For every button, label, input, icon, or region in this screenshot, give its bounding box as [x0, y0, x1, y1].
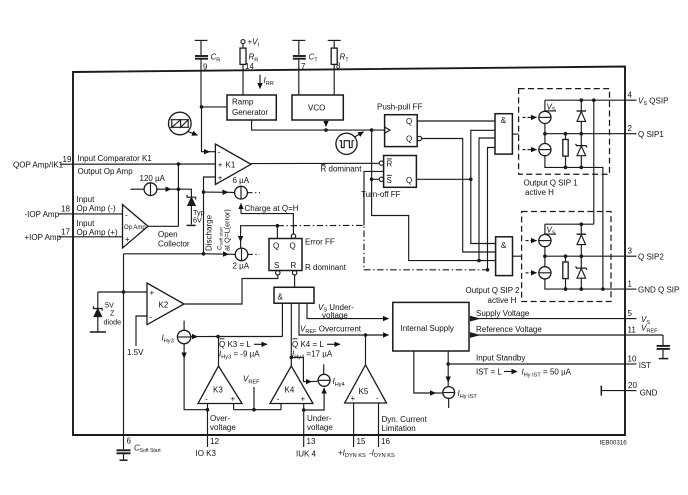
label IST = L -> IHyIST = 50 uA — [476, 368, 572, 379]
svg-text:K2: K2 — [159, 301, 169, 310]
svg-text:S: S — [274, 261, 279, 270]
AND gate (fault OR) — [274, 287, 314, 303]
svg-text:K1: K1 — [226, 160, 236, 169]
svg-text:-: - — [125, 210, 128, 219]
node pin12 junction — [206, 408, 210, 412]
svg-text:11: 11 — [628, 326, 637, 335]
zener diode typ 6V — [178, 189, 195, 225]
svg-text:Q: Q — [406, 117, 412, 126]
op-amp U1 — [123, 205, 149, 249]
wire pin9 to ramp/K1 node — [200, 70, 202, 107]
wire bottom rail stage 1 — [545, 156, 603, 289]
wire IHy4 down to pin 13 node — [304, 388, 324, 410]
ground bar pin 20 — [601, 386, 625, 396]
output stage 1 dashed box — [519, 89, 610, 175]
wire pin 6 soft start — [123, 254, 125, 449]
current arrow IRR — [259, 75, 261, 89]
block VCO — [292, 95, 343, 120]
svg-text:Op Amp: Op Amp — [124, 225, 146, 231]
wire mid rail stage1 to pin 2 — [545, 133, 625, 135]
svg-text:18: 18 — [61, 205, 70, 214]
AND gate output 2 — [496, 237, 513, 276]
node K4 output junction — [290, 356, 294, 360]
svg-text:Input: Input — [77, 219, 96, 228]
control arrow lower source stage 2 — [526, 272, 537, 274]
wire VREF rail — [234, 409, 281, 411]
wire K2 minus input 1.5V — [136, 316, 147, 346]
wire error line to turn-off FF input — [364, 171, 384, 225]
svg-text:13: 13 — [307, 437, 316, 446]
wire K1 output to turn-off FF R — [251, 162, 379, 164]
capacitor on VREF — [657, 335, 670, 359]
svg-text:Supply Voltage: Supply Voltage — [476, 309, 530, 318]
svg-text:R dominant: R dominant — [321, 164, 363, 173]
VS supply tick stage 1 — [545, 100, 556, 111]
svg-text:-: - — [277, 395, 280, 404]
current source 2uA (discharge) — [235, 248, 259, 261]
svg-text:Collector: Collector — [158, 240, 190, 249]
label QK3 = L — [219, 339, 267, 349]
svg-text:R: R — [291, 261, 297, 270]
node discharge junction — [202, 190, 206, 194]
svg-text:-: - — [150, 313, 153, 322]
svg-text:Charge at Q=H: Charge at Q=H — [245, 204, 299, 213]
current source IHyIST — [443, 387, 455, 408]
control arrow upper source stage 1 — [523, 116, 537, 118]
svg-text:+: + — [150, 288, 155, 297]
VS supply tick stage 2 — [545, 224, 556, 234]
svg-text:Q: Q — [406, 176, 412, 185]
node K5 output junction — [364, 333, 368, 337]
svg-text:+: + — [218, 160, 223, 169]
svg-text:Generator: Generator — [232, 108, 268, 117]
svg-text:voltage: voltage — [307, 423, 333, 432]
wire VCO output arrow — [325, 120, 327, 127]
wire reference voltage to pin 11 — [478, 334, 625, 336]
svg-text:+: + — [231, 395, 236, 404]
wire mid rail stage2 to pin 3 — [545, 255, 625, 257]
node K3 output junction — [216, 335, 220, 339]
wire turn-off Q to gate 1 — [471, 130, 495, 179]
wire turn-off Q to gate 2 — [471, 179, 496, 243]
block Ramp Generator — [227, 95, 276, 120]
resistor RT (pin 8 external) — [328, 40, 341, 69]
wire charge path to error FF Qbar — [241, 204, 293, 234]
svg-text:IO K3: IO K3 — [196, 449, 217, 458]
svg-text:voltage: voltage — [210, 423, 236, 432]
wire K3 plus to VREF rail — [233, 404, 235, 410]
wire mid node stage 1 — [544, 124, 546, 144]
wire error FF Q to 2uA top — [241, 226, 278, 248]
wire internal supply to IHyIST left — [414, 351, 436, 393]
wire K3 minus to pin 12 — [207, 404, 209, 448]
wire VS rail stage 2 — [545, 223, 594, 225]
pin 19 stub — [60, 163, 73, 165]
svg-text:active H: active H — [525, 188, 554, 197]
svg-text:Output Q SIP 1: Output Q SIP 1 — [524, 179, 579, 188]
wire fault input 2 (from K4 output) — [290, 303, 292, 366]
svg-text:R: R — [387, 159, 393, 168]
svg-text:Error FF: Error FF — [305, 238, 335, 247]
wire clock to turn-off FF S — [371, 130, 373, 179]
flip-flop Push-pull FF — [385, 115, 422, 147]
symbol sawtooth waveform — [169, 112, 198, 135]
svg-text:Limitation: Limitation — [382, 424, 416, 433]
comparator K5 — [345, 365, 387, 403]
wire VS link to stage 2 — [593, 100, 595, 224]
svg-text:-: - — [376, 394, 379, 403]
svg-text:5: 5 — [628, 309, 633, 318]
node pin19/op-amp-out junction — [177, 162, 181, 166]
node clock/S junction — [370, 178, 374, 182]
output stage 2 dashed box — [522, 212, 611, 302]
node error line junction — [276, 224, 280, 228]
wire fault input 3 (overcurrent line) — [299, 303, 389, 335]
svg-text:6V: 6V — [193, 216, 202, 225]
wire mid node stage 2 — [544, 247, 546, 267]
wire rail to 2uA source — [204, 253, 229, 255]
diode upper stage 1 — [577, 100, 586, 134]
node VREF junction — [252, 408, 256, 412]
svg-text:IST = L: IST = L — [476, 368, 502, 377]
control arrow lower source stage 1 — [523, 149, 537, 151]
svg-text:R dominant: R dominant — [305, 263, 347, 272]
wire fault input 4 (undervoltage line) — [307, 303, 389, 318]
current source lower stage 2 — [539, 267, 551, 279]
wire K5 output to overcurrent line — [365, 335, 367, 365]
wire error line dash-dot to output gates — [277, 225, 487, 269]
wire K5 minus to pin 16 — [378, 403, 380, 447]
wire push-pull Qbar to gate 2 — [422, 139, 496, 253]
svg-text:Q SIP2: Q SIP2 — [638, 252, 664, 261]
wire K3 output up — [218, 337, 220, 367]
current source IHy4 — [318, 364, 330, 386]
svg-text:6: 6 — [127, 437, 132, 446]
capacitor CT (pin 7 external) — [292, 40, 306, 69]
wire error FF Q output up — [276, 226, 278, 239]
wire push-pull Q to gate 1 — [417, 120, 495, 122]
svg-text:+: + — [218, 173, 223, 182]
svg-text:Output Op Amp: Output Op Amp — [78, 167, 134, 176]
wire op-amp output node vertical — [177, 164, 179, 226]
svg-text:+: + — [301, 395, 306, 404]
svg-text:17: 17 — [61, 227, 70, 236]
node turn-off Q junction — [469, 178, 473, 182]
wire soft-start rail to pin 6 line — [124, 253, 204, 255]
svg-text:GND Q SIP: GND Q SIP — [638, 285, 679, 294]
svg-text:-IOP Amp: -IOP Amp — [25, 210, 60, 219]
svg-text:Over-: Over- — [210, 414, 230, 423]
wire pin17 to op amp plus — [73, 236, 123, 238]
svg-text:120 µA: 120 µA — [140, 174, 166, 183]
svg-text:&: & — [278, 292, 284, 301]
svg-text:Op Amp (+): Op Amp (+) — [77, 228, 118, 237]
current source 120uA — [130, 183, 178, 196]
node gate2 input3 junction — [477, 259, 481, 263]
svg-text:K3: K3 — [213, 385, 223, 394]
resistor RR (pin 14 external) — [240, 40, 246, 70]
capacitor CR (pin 9 external) — [195, 40, 208, 70]
svg-text:IEB00316: IEB00316 — [600, 440, 628, 447]
svg-text:IUK 4: IUK 4 — [296, 449, 317, 458]
control arrow upper source stage 2 — [526, 240, 537, 242]
svg-text:Output Q SIP 2: Output Q SIP 2 — [466, 286, 521, 295]
svg-text:Input Standby: Input Standby — [476, 354, 525, 363]
node: ramp capacitor node — [200, 105, 204, 109]
resistor stage 2 — [563, 256, 568, 289]
wire pin7 to VCO — [298, 69, 300, 95]
svg-text:19: 19 — [63, 155, 72, 164]
wire standby node to IHyIST source — [447, 364, 449, 382]
svg-text:-: - — [205, 395, 208, 404]
wire K5 plus to pin 15 — [353, 403, 355, 447]
wire bottom rail stage 2 to pin 1 — [545, 279, 625, 289]
zener diode lower stage 1 — [576, 134, 587, 168]
svg-text:Q SIP1: Q SIP1 — [638, 130, 664, 139]
svg-text:12: 12 — [210, 437, 219, 446]
svg-text:S: S — [387, 176, 392, 185]
svg-text:2 µA: 2 µA — [233, 262, 250, 271]
wire gate2 output — [513, 255, 522, 257]
wire IHy3 down to pin 12 node — [184, 344, 207, 410]
pin 17 stub — [59, 236, 74, 238]
zener diode lower stage 2 — [576, 256, 587, 289]
wire internal supply to standby node — [447, 351, 449, 364]
wire K3 node to fault gate — [218, 336, 282, 338]
svg-text:at Q=L(error): at Q=L(error) — [223, 209, 232, 251]
svg-text:VCO: VCO — [308, 104, 325, 113]
svg-text:1.5V: 1.5V — [127, 348, 144, 357]
wire K4 plus to pin 13 — [303, 404, 305, 448]
wire op-amp output (open collector) — [148, 225, 178, 227]
node mid stage 2 — [543, 254, 547, 258]
svg-text:+: + — [351, 394, 356, 403]
current source upper stage 1 — [539, 111, 551, 123]
node soft-start rail junction — [202, 252, 206, 256]
wire VREF drop — [253, 387, 255, 410]
wire to 6uA source — [204, 191, 229, 193]
svg-text:3: 3 — [628, 247, 633, 256]
wire gate1 output — [512, 133, 518, 135]
svg-text:Op Amp (-): Op Amp (-) — [77, 204, 116, 213]
svg-text:GND: GND — [640, 388, 658, 397]
svg-text:14: 14 — [245, 62, 254, 71]
wire error branch up to gate 1 — [488, 148, 496, 270]
comparator K4 — [270, 366, 313, 404]
current source 6uA (charge) — [235, 186, 260, 199]
wire error FF S input — [184, 275, 278, 304]
wire clock branch up to gate 1 — [479, 138, 495, 261]
wire fault input 1 (from K3 line) — [281, 303, 283, 336]
svg-text:Z: Z — [110, 309, 115, 318]
node clock branch — [370, 128, 374, 132]
node 120uA junction — [177, 187, 181, 191]
node mid stage 1 — [543, 132, 547, 136]
svg-text:7: 7 — [301, 62, 306, 71]
wire pin19 line to K1 plus input — [73, 163, 215, 165]
svg-text:Q: Q — [273, 241, 279, 250]
svg-text:2: 2 — [628, 124, 633, 133]
svg-text:-: - — [218, 148, 221, 157]
wire clock line to push-pull FF — [326, 129, 385, 131]
svg-text:Q: Q — [290, 241, 296, 250]
symbol pulse waveform — [336, 132, 364, 155]
svg-text:active H: active H — [488, 296, 517, 305]
svg-text:15: 15 — [357, 437, 366, 446]
comparator K2 — [147, 283, 184, 325]
node pin13 junction — [302, 408, 306, 412]
svg-text:+: + — [125, 235, 130, 244]
wire pin18 to op amp minus — [73, 213, 123, 215]
svg-text:Dyn. Current: Dyn. Current — [382, 415, 428, 424]
svg-text:K5: K5 — [359, 387, 369, 396]
wire VS rail stage 1 to pin 4 — [545, 99, 625, 101]
svg-text:Q K4 = L: Q K4 = L — [292, 340, 324, 349]
wire K4 minus to VREF rail — [280, 404, 282, 410]
flip-flop Error FF — [269, 234, 302, 275]
wire soft-start node vertical — [204, 177, 216, 254]
svg-text:4: 4 — [628, 91, 633, 100]
svg-text:Under-: Under- — [307, 414, 332, 423]
comparator K1 — [215, 144, 251, 185]
node dots stage 1 — [564, 98, 596, 169]
current source upper stage 2 — [539, 235, 551, 247]
svg-text:Input Comparator K1: Input Comparator K1 — [78, 154, 153, 163]
node standby junction — [446, 362, 450, 366]
svg-text:Internal Supply: Internal Supply — [401, 324, 454, 333]
capacitor Csoft start external — [117, 450, 131, 460]
svg-text:IST: IST — [639, 361, 652, 370]
wire pin14 to Ramp Generator — [242, 70, 244, 95]
wire supply voltage to pin 5 — [478, 318, 625, 320]
svg-text:Reference Voltage: Reference Voltage — [476, 325, 542, 334]
pin 18 stub — [59, 213, 74, 215]
svg-text:diode: diode — [104, 318, 122, 327]
svg-text:QOP Amp/IK1: QOP Amp/IK1 — [13, 161, 64, 170]
svg-text:1: 1 — [628, 280, 633, 289]
wire node to Ramp Generator input — [202, 106, 228, 108]
svg-text:Push-pull FF: Push-pull FF — [377, 103, 422, 112]
svg-text:K4: K4 — [285, 385, 295, 394]
block Internal Supply — [393, 302, 469, 351]
svg-text:20: 20 — [628, 381, 637, 390]
current source IHy3 — [177, 321, 197, 344]
IC outline border — [73, 67, 625, 436]
comparator K3 — [198, 366, 242, 404]
svg-text:&: & — [501, 241, 507, 250]
svg-text:8: 8 — [336, 62, 341, 71]
svg-text:Input: Input — [77, 195, 96, 204]
wire input standby pin 10 — [448, 363, 625, 365]
wire IHy3 to K3 output node — [198, 336, 219, 338]
node clock junction — [324, 128, 328, 132]
wire K2 plus input / 5V node — [98, 291, 147, 293]
svg-text:Turn-off FF: Turn-off FF — [361, 190, 401, 199]
AND gate output 1 — [495, 114, 512, 154]
svg-text:10: 10 — [628, 355, 637, 364]
svg-text:Discharge: Discharge — [205, 214, 214, 251]
flip-flop Turn-off FF — [379, 156, 416, 188]
svg-text:9: 9 — [203, 63, 208, 72]
svg-text:Ramp: Ramp — [232, 98, 254, 107]
current source lower stage 1 — [539, 144, 551, 156]
node soft-start/K2 junction — [122, 290, 126, 294]
svg-text:&: & — [501, 116, 507, 125]
svg-text:voltage: voltage — [322, 311, 348, 320]
svg-text:16: 16 — [381, 437, 390, 446]
node dots stage 2 — [564, 222, 605, 291]
node gate2 input4 junction — [486, 268, 490, 272]
svg-text:Q: Q — [406, 135, 412, 144]
diode upper stage 2 — [577, 224, 586, 256]
wire turn-off Q output — [416, 178, 470, 180]
wire clock path to output gate 2 — [372, 179, 496, 260]
resistor stage 1 — [563, 134, 568, 168]
wire node down to K1 minus input — [202, 107, 210, 152]
svg-text:6 µA: 6 µA — [233, 176, 250, 185]
label QK4 = L — [292, 339, 340, 349]
wire K4 output branch to IHy4 — [291, 358, 311, 382]
zener diode 5V — [90, 292, 106, 332]
svg-text:Open: Open — [158, 230, 178, 239]
wire ramp generator sync to clock line — [252, 120, 326, 130]
svg-text:+IOP Amp: +IOP Amp — [25, 233, 62, 242]
svg-text:Q K3 = L: Q K3 = L — [219, 340, 251, 349]
wire error FF R input from AND gate — [294, 275, 296, 287]
wire pin8 to VCO — [333, 69, 335, 95]
